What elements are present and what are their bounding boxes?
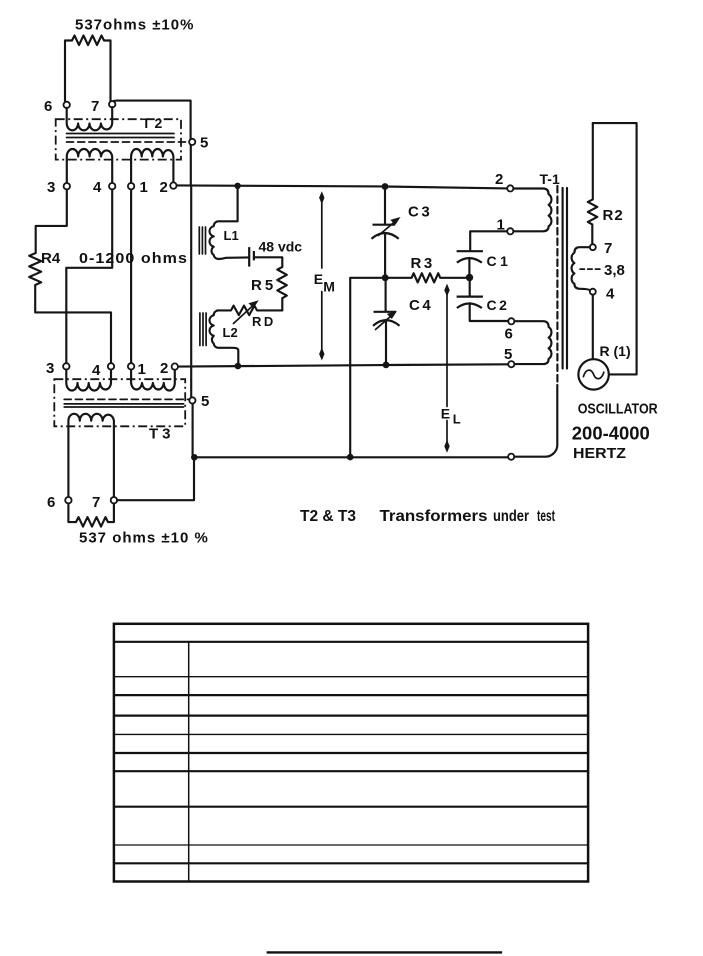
svg-text:R (1): R (1)	[600, 343, 631, 359]
svg-text:T2 & T3: T2 & T3	[300, 508, 356, 525]
svg-text:1: 1	[140, 179, 148, 196]
svg-text:2: 2	[495, 171, 503, 188]
svg-text:T3: T3	[149, 426, 175, 443]
svg-text:5: 5	[201, 393, 209, 410]
svg-text:7: 7	[604, 240, 612, 257]
svg-text:under: under	[493, 508, 529, 525]
svg-text:4: 4	[92, 362, 101, 379]
svg-text:537ohms ±10%: 537ohms ±10%	[75, 17, 194, 34]
svg-text:T-1: T-1	[540, 171, 560, 187]
svg-text:6: 6	[505, 326, 513, 343]
svg-text:4: 4	[93, 179, 102, 196]
svg-text:Transformers: Transformers	[380, 508, 488, 525]
svg-text:HERTZ: HERTZ	[573, 445, 626, 462]
svg-text:E: E	[441, 406, 450, 422]
svg-text:1: 1	[497, 217, 505, 234]
svg-text:C2: C2	[487, 297, 510, 313]
svg-text:3,8: 3,8	[604, 262, 625, 279]
svg-text:T2: T2	[142, 115, 166, 131]
svg-text:RD: RD	[252, 314, 276, 329]
svg-text:R3: R3	[411, 255, 435, 272]
svg-text:5: 5	[504, 346, 512, 363]
svg-text:3: 3	[46, 360, 54, 377]
svg-text:R2: R2	[603, 207, 624, 224]
svg-text:3: 3	[47, 179, 55, 196]
svg-text:5: 5	[200, 135, 208, 152]
svg-text:4: 4	[606, 286, 615, 303]
svg-text:L: L	[453, 412, 461, 427]
svg-text:48 vdc: 48 vdc	[259, 239, 303, 255]
svg-text:R4: R4	[41, 250, 61, 267]
svg-text:6: 6	[47, 494, 55, 511]
svg-text:C1: C1	[487, 253, 512, 269]
svg-text:C3: C3	[408, 204, 432, 221]
svg-text:R5: R5	[251, 277, 276, 294]
svg-text:6: 6	[44, 98, 52, 115]
svg-text:7: 7	[91, 98, 99, 115]
svg-text:M: M	[323, 278, 335, 294]
svg-text:537 ohms ±10 %: 537 ohms ±10 %	[79, 530, 209, 547]
svg-text:OSCILLATOR: OSCILLATOR	[578, 401, 658, 418]
svg-text:7: 7	[92, 494, 100, 511]
svg-text:200-4000: 200-4000	[572, 424, 650, 444]
svg-text:2: 2	[160, 360, 168, 377]
svg-text:test: test	[537, 508, 555, 525]
svg-text:1: 1	[138, 361, 146, 378]
svg-text:L1: L1	[224, 228, 239, 243]
svg-text:L2: L2	[223, 325, 238, 340]
svg-text:C4: C4	[409, 297, 433, 314]
svg-text:2: 2	[160, 179, 168, 196]
svg-text:E: E	[314, 271, 323, 287]
svg-text:0-1200 ohms: 0-1200 ohms	[79, 250, 188, 267]
